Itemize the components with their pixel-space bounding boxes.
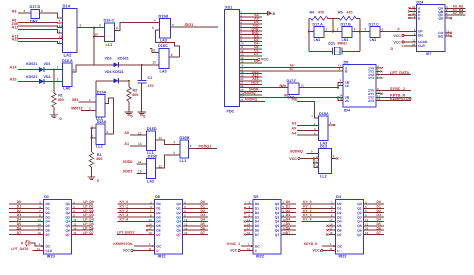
svg-text:5: 5 (365, 28, 367, 32)
svg-text:IE7: IE7 (426, 52, 431, 56)
svg-text:8: 8 (171, 53, 173, 57)
svg-text:11: 11 (148, 247, 151, 251)
svg-text:VCC: VCC (261, 58, 269, 62)
svg-text:A14: A14 (10, 65, 18, 69)
svg-text:D8: D8 (155, 195, 160, 199)
svg-text:D7: D7 (46, 233, 50, 237)
svg-text:0: 0 (60, 117, 62, 121)
svg-text:19: 19 (365, 231, 369, 235)
svg-text:D16 C: D16 C (104, 19, 115, 23)
svg-text:A13: A13 (12, 38, 19, 42)
svg-text:LA2: LA2 (147, 179, 154, 183)
svg-text:OC: OC (255, 244, 261, 248)
svg-text:A0: A0 (124, 131, 129, 135)
svg-text:OC: OC (46, 244, 52, 248)
svg-text:15: 15 (339, 97, 343, 101)
svg-text:13: 13 (138, 169, 142, 173)
svg-text:LL1: LL1 (106, 43, 113, 47)
svg-text:D15D: D15D (148, 155, 158, 159)
svg-text:A2_Rd: A2_Rd (453, 11, 464, 15)
svg-text:D15B: D15B (159, 14, 169, 18)
svg-text:10: 10 (95, 33, 99, 37)
svg-text:D15A: D15A (97, 91, 107, 95)
svg-text:ZQ1: ZQ1 (328, 42, 335, 46)
svg-text:A4: A4 (292, 131, 297, 135)
svg-text:18: 18 (37, 231, 41, 235)
svg-text:/IOD1: /IOD1 (123, 169, 133, 173)
svg-text:D7: D7 (337, 233, 341, 237)
svg-text:8MHz: 8MHz (338, 42, 348, 46)
svg-text:A3: A3 (292, 122, 297, 126)
svg-text:D7: D7 (286, 231, 290, 235)
svg-text:D1: D1 (44, 195, 49, 199)
svg-text:VCC: VCC (230, 249, 238, 253)
svg-text:11: 11 (159, 164, 163, 168)
svg-text:4: 4 (154, 18, 156, 22)
svg-text:D17.D: D17.D (30, 5, 41, 9)
svg-text:A7: A7 (290, 67, 294, 71)
svg-text:D17.B: D17.B (341, 22, 352, 26)
svg-text:0: 0 (97, 179, 99, 183)
svg-text:6: 6 (190, 144, 192, 148)
svg-text:B: B (273, 12, 276, 16)
svg-text:2: 2 (59, 40, 61, 44)
svg-text:400: 400 (132, 93, 138, 97)
svg-text:400: 400 (58, 98, 64, 102)
svg-text:8: 8 (116, 27, 118, 31)
svg-text:VD3: VD3 (105, 57, 112, 61)
svg-text:KD521: KD521 (26, 75, 37, 79)
svg-text:1: 1 (57, 66, 59, 70)
svg-text:LN1: LN1 (370, 38, 377, 42)
svg-text:11: 11 (329, 247, 332, 251)
svg-text:Q7: Q7 (176, 233, 181, 237)
svg-text:LL2: LL2 (320, 174, 327, 178)
svg-text:QD: QD (438, 16, 444, 20)
svg-text:2: 2 (57, 77, 59, 81)
svg-text:/IODQ1: /IODQ1 (199, 145, 212, 149)
svg-text:D24: D24 (416, 0, 424, 4)
svg-text:SYNC_J: SYNC_J (390, 87, 405, 91)
svg-text:9: 9 (80, 24, 82, 28)
svg-text:470: 470 (318, 10, 324, 14)
svg-text:D7: D7 (156, 233, 160, 237)
svg-text:11: 11 (159, 136, 163, 140)
svg-text:VCC: VCC (289, 157, 297, 161)
svg-text:KEMPSTON: KEMPSTON (390, 97, 412, 101)
svg-text:LPT_DATA: LPT_DATA (390, 71, 410, 75)
svg-text:VCC: VCC (394, 34, 402, 38)
svg-text:Q7: Q7 (275, 233, 280, 237)
svg-text:470: 470 (347, 10, 353, 14)
svg-text:VCC: VCC (313, 249, 321, 253)
svg-text:1Y3: 1Y3 (368, 76, 374, 80)
svg-text:9: 9 (99, 24, 101, 28)
svg-text:LPT_DATA: LPT_DATA (11, 247, 29, 251)
svg-text:A0/DRQ: A0/DRQ (245, 98, 258, 102)
svg-text:D17.F: D17.F (287, 79, 298, 83)
svg-text:10: 10 (152, 61, 156, 65)
svg-text:18: 18 (247, 231, 251, 235)
svg-text:LL1: LL1 (180, 159, 187, 163)
svg-text:/RD: /RD (292, 98, 298, 102)
svg-text:2: 2 (89, 107, 91, 111)
svg-text:13: 13 (279, 84, 283, 88)
svg-text:KD521: KD521 (118, 57, 129, 61)
svg-text:19: 19 (184, 231, 188, 235)
svg-text:2C: 2C (345, 99, 350, 103)
svg-text:CLR: CLR (418, 44, 425, 48)
svg-text:D16B: D16B (180, 136, 190, 140)
svg-text:D7: D7 (254, 52, 258, 56)
svg-text:3: 3 (106, 130, 108, 134)
svg-text:6: 6 (172, 23, 174, 27)
svg-text:LA0: LA0 (63, 87, 70, 91)
svg-text:13: 13 (138, 142, 142, 146)
svg-text:A15: A15 (10, 78, 17, 82)
svg-text:D15D: D15D (147, 127, 157, 131)
svg-text:OC: OC (156, 244, 162, 248)
svg-text:/IODRQ: /IODRQ (290, 149, 303, 153)
svg-text:4: 4 (354, 28, 356, 32)
svg-text:D14: D14 (63, 3, 71, 8)
svg-text:ID4: ID4 (344, 108, 351, 112)
svg-text:LA2: LA2 (64, 53, 73, 58)
svg-text:A5: A5 (292, 126, 297, 130)
svg-text:VD2: VD2 (44, 75, 51, 79)
svg-text:13: 13 (315, 159, 319, 163)
svg-text:19: 19 (73, 231, 77, 235)
svg-text:LA3: LA3 (160, 69, 167, 73)
svg-text:Q7: Q7 (357, 233, 362, 237)
svg-text:VD1: VD1 (44, 62, 51, 66)
svg-text:5: 5 (173, 151, 175, 155)
svg-text:D6: D6 (344, 60, 349, 64)
svg-text:XS1: XS1 (225, 6, 232, 10)
svg-text:1C: 1C (345, 84, 350, 88)
svg-text:BO: BO (438, 34, 443, 38)
svg-text:D16.A: D16.A (62, 59, 73, 63)
svg-text:KEMPSTON: KEMPSTON (113, 242, 133, 246)
svg-text:D17.A: D17.A (313, 22, 324, 26)
svg-text:Q7: Q7 (65, 233, 70, 237)
svg-text:C1: C1 (148, 76, 153, 80)
svg-text:6: 6 (382, 28, 384, 32)
svg-text:D15C: D15C (158, 44, 168, 48)
svg-text:/IODRQ: /IODRQ (244, 91, 256, 95)
svg-text:A1: A1 (124, 142, 129, 146)
svg-text:19: 19 (283, 231, 287, 235)
svg-text:12: 12 (301, 84, 305, 88)
svg-text:IR22: IR22 (339, 255, 347, 259)
svg-text:SYNC_J: SYNC_J (227, 242, 240, 246)
svg-text:4: 4 (173, 141, 175, 145)
svg-text:D5: D5 (254, 195, 259, 199)
svg-text:TxD2: TxD2 (250, 81, 258, 85)
svg-text:D: D (391, 47, 394, 51)
svg-text:1: 1 (89, 98, 91, 102)
svg-text:11: 11 (37, 247, 40, 251)
svg-text:R4: R4 (310, 10, 315, 14)
svg-text:A11: A11 (12, 26, 19, 30)
svg-text:D7: D7 (201, 231, 205, 235)
svg-text:470: 470 (148, 84, 154, 88)
svg-text:9: 9 (153, 49, 155, 53)
svg-text:D7: D7 (255, 233, 259, 237)
svg-text:11: 11 (247, 247, 250, 251)
svg-text:IR22: IR22 (256, 255, 264, 259)
svg-text:18: 18 (329, 231, 333, 235)
svg-text:/IOD0: /IOD0 (123, 160, 133, 164)
svg-text:4: 4 (59, 19, 61, 23)
svg-text:CLK: CLK (46, 249, 53, 253)
svg-text:/WRT2: /WRT2 (71, 107, 83, 111)
svg-text:D13: D13 (320, 145, 327, 149)
svg-text:/DO1: /DO1 (185, 23, 194, 27)
svg-text:VCC: VCC (394, 40, 402, 44)
svg-text:FDC: FDC (227, 110, 235, 114)
svg-text:OC: OC (337, 244, 343, 248)
svg-text:LN1: LN1 (314, 38, 321, 42)
svg-text:VCC: VCC (123, 249, 131, 253)
svg-text:400: 400 (96, 157, 102, 161)
svg-text:/M1: /M1 (72, 98, 78, 102)
svg-text:12: 12 (59, 35, 63, 39)
svg-text:13: 13 (59, 24, 63, 28)
svg-text:9: 9 (24, 9, 26, 13)
svg-text:D17.C: D17.C (369, 22, 380, 26)
svg-text:2Y3: 2Y3 (368, 99, 374, 103)
svg-text:D7: D7 (377, 231, 381, 235)
svg-text:D0: D0 (254, 59, 258, 63)
svg-text:D15A: D15A (97, 120, 107, 124)
svg-text:3: 3 (337, 28, 339, 32)
svg-text:5: 5 (152, 26, 154, 30)
svg-text:12: 12 (138, 131, 142, 135)
svg-text:10: 10 (315, 155, 319, 159)
svg-text:DN: DN (418, 34, 423, 38)
svg-text:KD521: KD521 (26, 62, 37, 66)
svg-text:12: 12 (138, 160, 142, 164)
svg-text:0: 0 (143, 114, 145, 118)
svg-text:3: 3 (73, 68, 75, 72)
svg-text:0: 0 (131, 114, 133, 118)
svg-text:D18A: D18A (319, 112, 329, 116)
svg-text:KEYB_R: KEYB_R (304, 242, 318, 246)
svg-text:LL1: LL1 (96, 145, 103, 149)
svg-text:A9: A9 (12, 9, 17, 13)
svg-text:R5: R5 (338, 10, 343, 14)
svg-text:LP_D7: LP_D7 (83, 231, 94, 235)
svg-text:12: 12 (315, 164, 319, 168)
svg-text:IR23: IR23 (47, 255, 55, 259)
svg-text:2: 2 (326, 28, 328, 32)
svg-text:1: 1 (59, 30, 61, 34)
svg-text:IR22: IR22 (158, 255, 166, 259)
svg-text:18: 18 (148, 231, 152, 235)
svg-text:VD4 KD521: VD4 KD521 (105, 70, 124, 74)
